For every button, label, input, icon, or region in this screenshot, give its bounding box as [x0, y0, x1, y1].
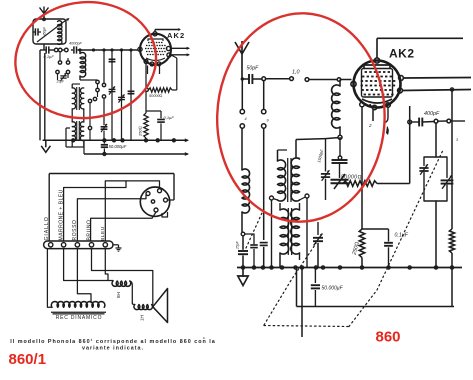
wire terminal2 down to choke 8H: [64, 249, 113, 281]
svg-text:1,0: 1,0: [292, 70, 300, 76]
left column wire to coil: [241, 128, 243, 170]
capacitor 0.1uF right panel: [362, 229, 393, 268]
svg-text:AK2: AK2: [389, 47, 415, 61]
trimmer capacitor mid: [313, 222, 323, 268]
svg-text:4: 4: [245, 117, 247, 121]
choke 8H: [112, 281, 132, 303]
cathode lead down to resistor: [145, 63, 147, 88]
switch gap and terminals on top bus: [266, 77, 352, 82]
tube plate wires exiting right: [402, 78, 471, 91]
svg-text:8H: 8H: [116, 292, 121, 298]
capacitor C1 0.1uF in series: [45, 46, 47, 53]
svg-text:Il modello Phonola 860¹ corris: Il modello Phonola 860¹ corrisponde al m…: [10, 339, 216, 345]
resistor R2 250 ohm vertical: [144, 113, 148, 138]
trimmer capacitor 25pF: [60, 73, 66, 81]
IF transformer T1: [72, 84, 84, 114]
antenna coil L3: [242, 169, 250, 213]
vertical from plate line to R3 right: [409, 106, 411, 184]
tube pins right panel: [351, 58, 404, 110]
wire from pin2 area down to tuning cap: [338, 137, 342, 160]
ground symbol left: [45, 140, 47, 147]
choke 1H to speaker: [132, 303, 153, 309]
svg-text:MARRONE + BLEU: MARRONE + BLEU: [58, 189, 64, 240]
svg-text:50000Ω: 50000Ω: [149, 94, 163, 98]
grid coil L4: [332, 80, 342, 140]
wiring box top line: [49, 174, 174, 242]
wire from box to main bus: [43, 44, 45, 50]
dangling grid leads with label 2: [368, 107, 389, 135]
vertical wire x=131 with capacitor: [128, 50, 135, 140]
IF transformer T4 lower: [280, 203, 300, 268]
right schematic: antenna: [235, 42, 242, 54]
svg-text:BRUNO: BRUNO: [86, 219, 92, 240]
junction dots on bus: [78, 48, 132, 51]
socket key step: [162, 213, 168, 218]
tube pins left panel: [138, 32, 171, 66]
tube AK2 left panel: [140, 34, 171, 65]
speaker cone: [153, 289, 168, 323]
switch contacts below: [240, 80, 269, 128]
left long vertical wires: [40, 50, 45, 140]
RF coil L2 from bus: [80, 50, 86, 80]
svg-text:ROSSO: ROSSO: [72, 219, 78, 240]
tube output arrows right: [171, 47, 190, 57]
wire socket S pin from terminal 4: [91, 212, 156, 241]
svg-text:25pF: 25pF: [56, 80, 65, 84]
tube top cap wire: [377, 38, 463, 58]
main tuning capacitor bottom left: [238, 236, 248, 268]
wire terminal3 down to field coil right: [77, 249, 91, 303]
svg-text:250Ω: 250Ω: [138, 126, 143, 137]
left schematic: antenna: [40, 8, 45, 14]
tube dangling pin leads: [148, 66, 160, 75]
cathode lead to 250 ohm: [361, 107, 363, 229]
second column x=263 down: [260, 128, 268, 267]
trimmer capacitor upper mid: [321, 139, 330, 200]
red highlight ellipse right: [214, 11, 388, 225]
ground bus rail 1 with arrow: [43, 138, 189, 142]
wire socket NE pin from terminal 5: [105, 181, 159, 241]
svg-text:0,1µF: 0,1µF: [164, 115, 175, 120]
svg-text:2: 2: [368, 123, 372, 128]
svg-text:0,1µF: 0,1µF: [395, 233, 409, 239]
wire socket NW pin from terminal 3: [77, 195, 146, 241]
capacitor C-ant inside box: [33, 28, 41, 35]
coil L-ant inside box: [58, 21, 62, 45]
svg-text:860: 860: [376, 329, 401, 346]
trimmer on x=112: [109, 86, 116, 94]
tube top cap wire with arrow: [155, 28, 181, 32]
B+ vertical pair below rail: [297, 268, 303, 338]
capacitor 50pF: [241, 74, 266, 84]
svg-text:50pF: 50pF: [247, 66, 260, 72]
wire terminal1 down to field coil: [47, 249, 52, 308]
antenna coupling box with variable coupling: [33, 19, 66, 44]
tuning trimmer pair right column: [419, 123, 453, 267]
svg-text:REC DINAMICO: REC DINAMICO: [56, 315, 103, 321]
tuning gang capacitor left: [331, 160, 349, 189]
tube socket circle: [140, 187, 169, 216]
capacitor C2 4000pF in series: [73, 46, 75, 53]
dashed gang tick: [246, 213, 262, 248]
IF transformer T2: [66, 114, 84, 147]
ground below rail right panel: [238, 268, 248, 286]
capacitor 400pF: [408, 118, 465, 127]
main horizontal bus y=50: [40, 49, 138, 51]
loop wire tube right to R1: [171, 55, 177, 90]
svg-text:1H: 1H: [140, 315, 145, 321]
electrolytic 50.000uF right panel: [311, 268, 320, 307]
wire R1 to R2: [145, 92, 147, 114]
small junction circles column x=97: [86, 80, 99, 101]
terminal strip: [44, 241, 113, 249]
ground at strip right: [113, 245, 122, 251]
svg-text:50.000µF: 50.000µF: [109, 144, 127, 149]
bottom rail right panel: [237, 266, 462, 269]
middle vertical wire x=90 with circles: [88, 99, 91, 140]
wire terminal5 down: [105, 249, 108, 281]
switch terminals on bus: [54, 48, 68, 52]
variable coupling diagonal arrow: [37, 18, 70, 42]
resistor R4 250 ohm vertical: [359, 229, 365, 258]
svg-text:860/1: 860/1: [9, 351, 47, 368]
tube AK2 right panel: [354, 61, 401, 109]
bottom line to right: [297, 268, 455, 307]
IF transformer T3 upper: [278, 150, 300, 202]
svg-text:ln: ln: [203, 336, 206, 340]
svg-text:4000pF: 4000pF: [69, 42, 83, 46]
vertical wire x=112 with fixed capacitor: [109, 50, 116, 140]
screen resistor R3 50000 ohm: [343, 181, 410, 187]
svg-text:AK2: AK2: [167, 31, 185, 40]
wire from terminal 2 up: [64, 181, 126, 241]
svg-text:450pF: 450pF: [43, 26, 47, 36]
wire to transformer and trimmer column: [296, 138, 338, 158]
vertical x=104 with switch circles and trimmer: [101, 50, 108, 140]
switch contact circles mid-left: [56, 52, 70, 80]
electrolytic 50.000uF to rail2: [101, 142, 108, 154]
field coil REC DINAMICO: [51, 302, 106, 314]
capacitor 0.1uF right: [146, 111, 165, 140]
red highlight ellipse left: [11, 0, 161, 124]
resistor R1 50000 ohm: [145, 88, 172, 92]
svg-text:GIALLO: GIALLO: [44, 216, 50, 240]
right edge resistor R5: [449, 88, 454, 268]
svg-text:variante indicata.: variante indicata.: [82, 346, 144, 352]
wire coil to capacitor: [241, 212, 245, 236]
svg-text:50.000µF: 50.000µF: [322, 286, 344, 292]
junction circles T3: [270, 194, 310, 268]
svg-text:BLEU: BLEU: [100, 226, 106, 241]
svg-text:25pF: 25pF: [236, 240, 240, 250]
svg-text:400pF: 400pF: [424, 111, 440, 117]
bus rail 2 with arrow: [84, 140, 189, 156]
wire terminal4 down long to speaker: [92, 249, 153, 305]
branch capacitor right: [245, 234, 258, 268]
vertical wire x=121.5 with trimmer: [118, 50, 125, 140]
gang coupling dashed lines: [264, 150, 443, 327]
